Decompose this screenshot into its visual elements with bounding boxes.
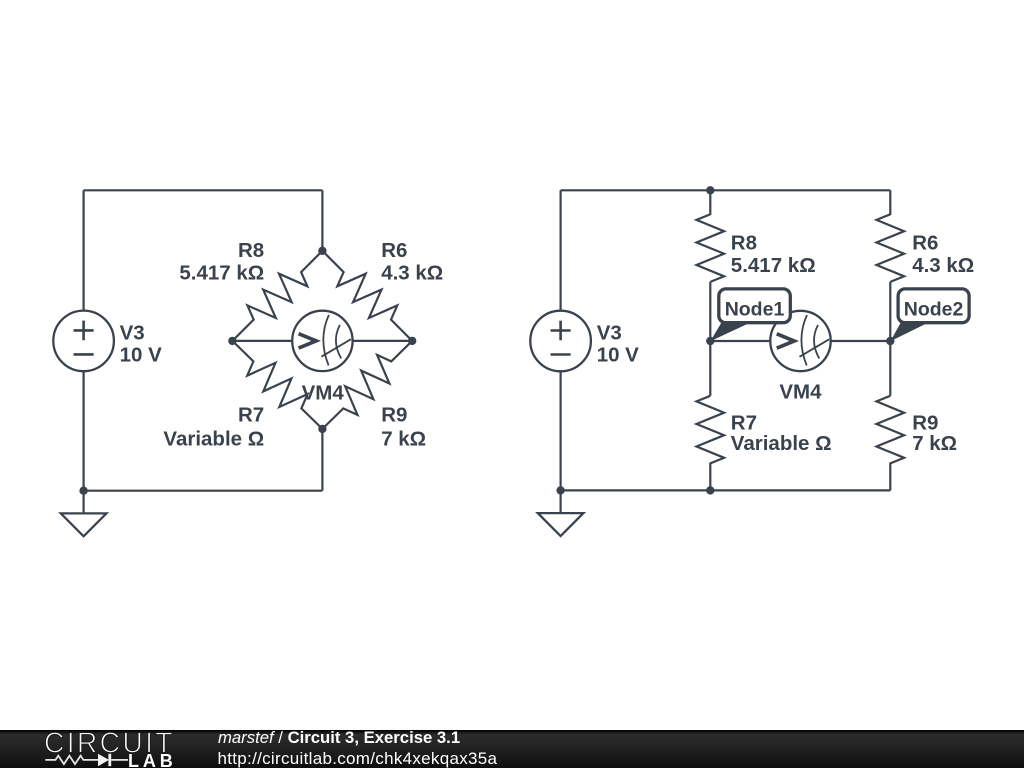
- svg-text:R9: R9: [381, 403, 407, 426]
- svg-text:Variable Ω: Variable Ω: [163, 427, 264, 450]
- svg-text:VM4: VM4: [302, 381, 345, 404]
- svg-text:5.417 kΩ: 5.417 kΩ: [179, 262, 264, 285]
- svg-text:Node1: Node1: [725, 299, 785, 321]
- svg-text:7 kΩ: 7 kΩ: [381, 427, 426, 450]
- svg-text:7 kΩ: 7 kΩ: [912, 432, 957, 455]
- svg-text:10 V: 10 V: [120, 344, 162, 367]
- svg-text:R6: R6: [381, 239, 407, 262]
- svg-text:R8: R8: [238, 239, 264, 262]
- svg-text:V3: V3: [597, 322, 622, 345]
- svg-text:5.417 kΩ: 5.417 kΩ: [731, 254, 816, 277]
- svg-text:R6: R6: [912, 231, 938, 254]
- svg-text:4.3 kΩ: 4.3 kΩ: [381, 262, 443, 285]
- svg-text:VM4: VM4: [779, 381, 822, 404]
- svg-text:Variable Ω: Variable Ω: [731, 432, 832, 455]
- svg-text:V3: V3: [120, 322, 145, 345]
- svg-text:Node2: Node2: [904, 299, 964, 321]
- svg-text:R8: R8: [731, 231, 757, 254]
- svg-text:R7: R7: [238, 403, 264, 426]
- svg-text:10 V: 10 V: [597, 344, 639, 367]
- svg-text:4.3 kΩ: 4.3 kΩ: [912, 254, 974, 277]
